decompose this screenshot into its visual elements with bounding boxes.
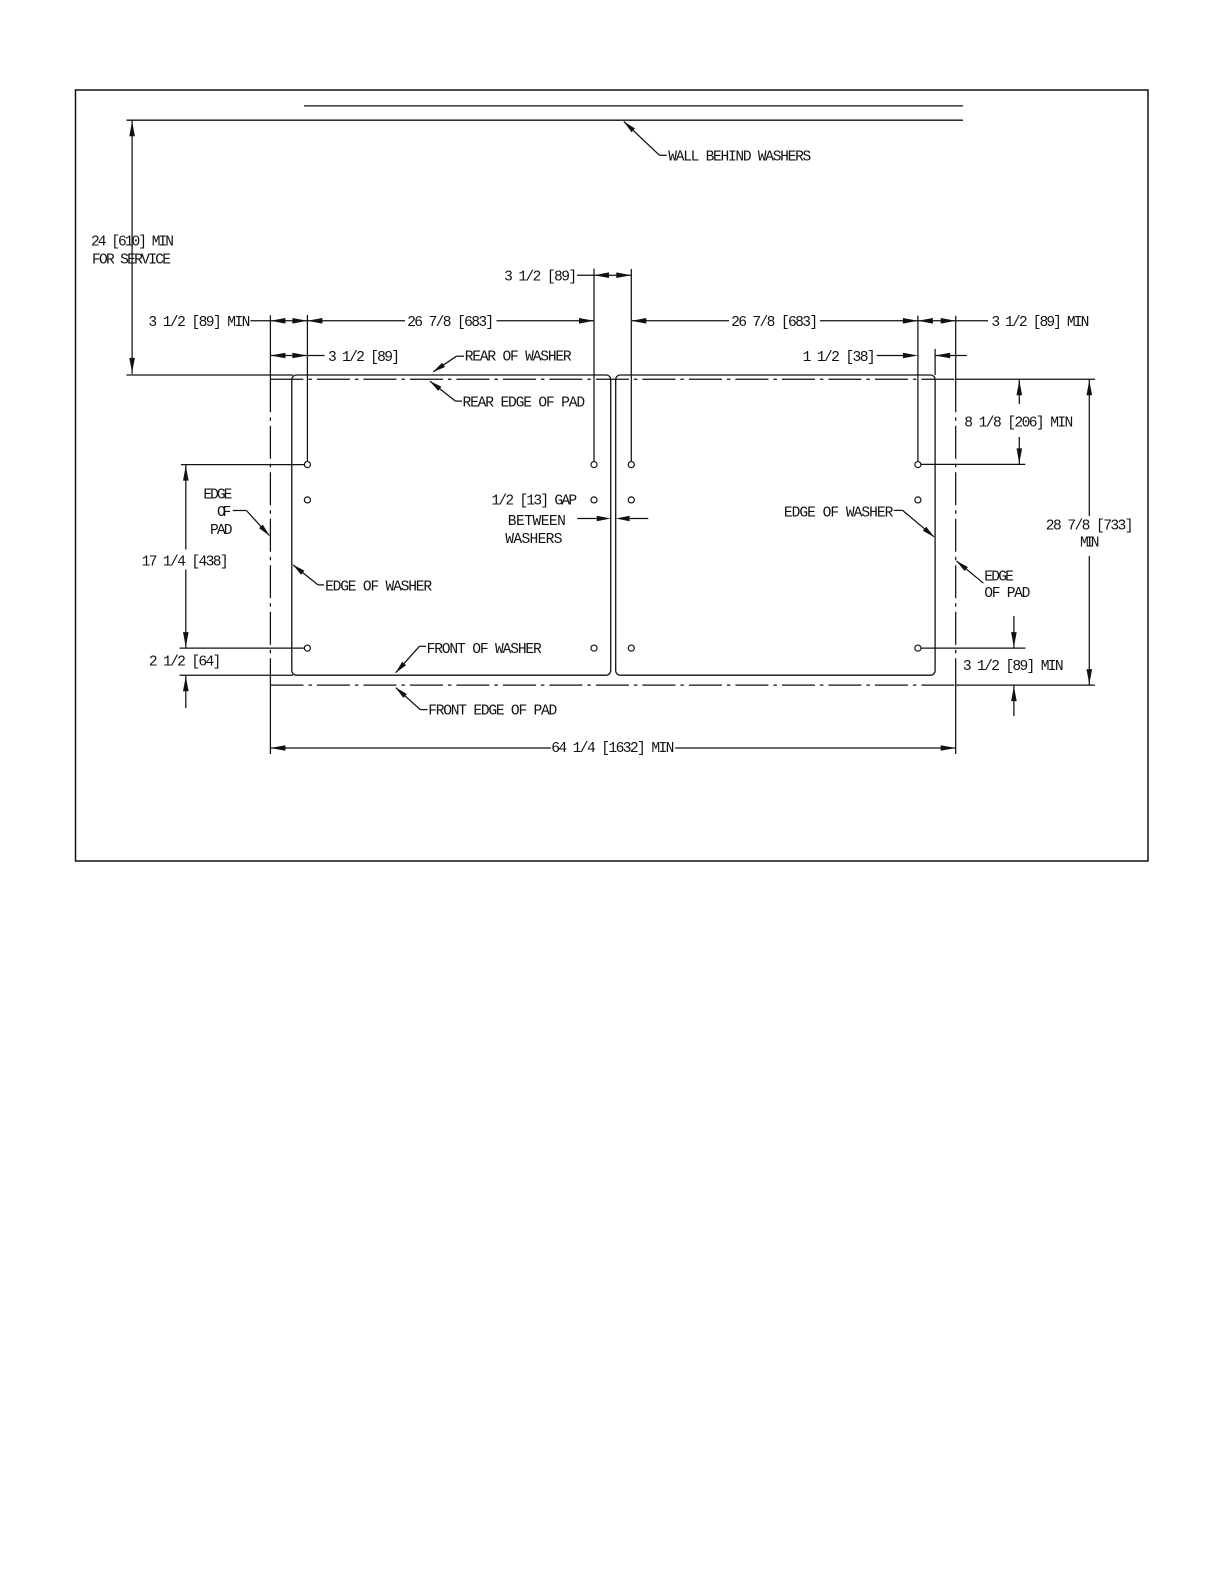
svg-text:WASHERS: WASHERS xyxy=(505,532,562,548)
svg-text:1/2 [13] GAP: 1/2 [13] GAP xyxy=(491,494,577,510)
svg-text:WALL BEHIND WASHERS: WALL BEHIND WASHERS xyxy=(668,150,811,166)
svg-text:FOR SERVICE: FOR SERVICE xyxy=(92,252,171,268)
svg-text:OF PAD: OF PAD xyxy=(984,586,1030,602)
svg-text:OF: OF xyxy=(217,505,231,521)
svg-text:8 1/8 [206] MIN: 8 1/8 [206] MIN xyxy=(964,416,1073,432)
svg-text:24 [610] MIN: 24 [610] MIN xyxy=(91,235,174,251)
svg-text:3 1/2 [89] MIN: 3 1/2 [89] MIN xyxy=(963,659,1064,675)
svg-text:BETWEEN: BETWEEN xyxy=(508,514,566,530)
svg-text:EDGE OF WASHER: EDGE OF WASHER xyxy=(784,506,894,522)
svg-text:28 7/8 [733]: 28 7/8 [733] xyxy=(1046,519,1134,535)
svg-text:3 1/2 [89]: 3 1/2 [89] xyxy=(328,350,400,366)
svg-text:3 1/2 [89]: 3 1/2 [89] xyxy=(504,269,577,285)
svg-text:3 1/2 [89] MIN: 3 1/2 [89] MIN xyxy=(991,315,1089,331)
svg-text:1 1/2 [38]: 1 1/2 [38] xyxy=(803,350,876,366)
svg-text:3 1/2 [89] MIN: 3 1/2 [89] MIN xyxy=(148,315,250,331)
svg-text:26 7/8 [683]: 26 7/8 [683] xyxy=(731,315,818,331)
svg-text:FRONT EDGE OF PAD: FRONT EDGE OF PAD xyxy=(428,704,557,720)
svg-text:EDGE: EDGE xyxy=(203,488,232,504)
svg-text:26 7/8 [683]: 26 7/8 [683] xyxy=(407,315,494,331)
svg-text:REAR OF WASHER: REAR OF WASHER xyxy=(465,350,572,366)
svg-text:REAR EDGE OF PAD: REAR EDGE OF PAD xyxy=(463,396,586,412)
svg-text:EDGE: EDGE xyxy=(984,569,1014,585)
svg-text:2 1/2 [64]: 2 1/2 [64] xyxy=(149,655,221,671)
svg-text:PAD: PAD xyxy=(210,523,233,539)
svg-text:64 1/4 [1632] MIN: 64 1/4 [1632] MIN xyxy=(551,741,674,757)
svg-text:17 1/4 [438]: 17 1/4 [438] xyxy=(142,554,229,570)
svg-text:FRONT OF WASHER: FRONT OF WASHER xyxy=(427,642,542,658)
svg-text:MIN: MIN xyxy=(1080,536,1100,552)
svg-text:EDGE OF WASHER: EDGE OF WASHER xyxy=(325,580,432,596)
